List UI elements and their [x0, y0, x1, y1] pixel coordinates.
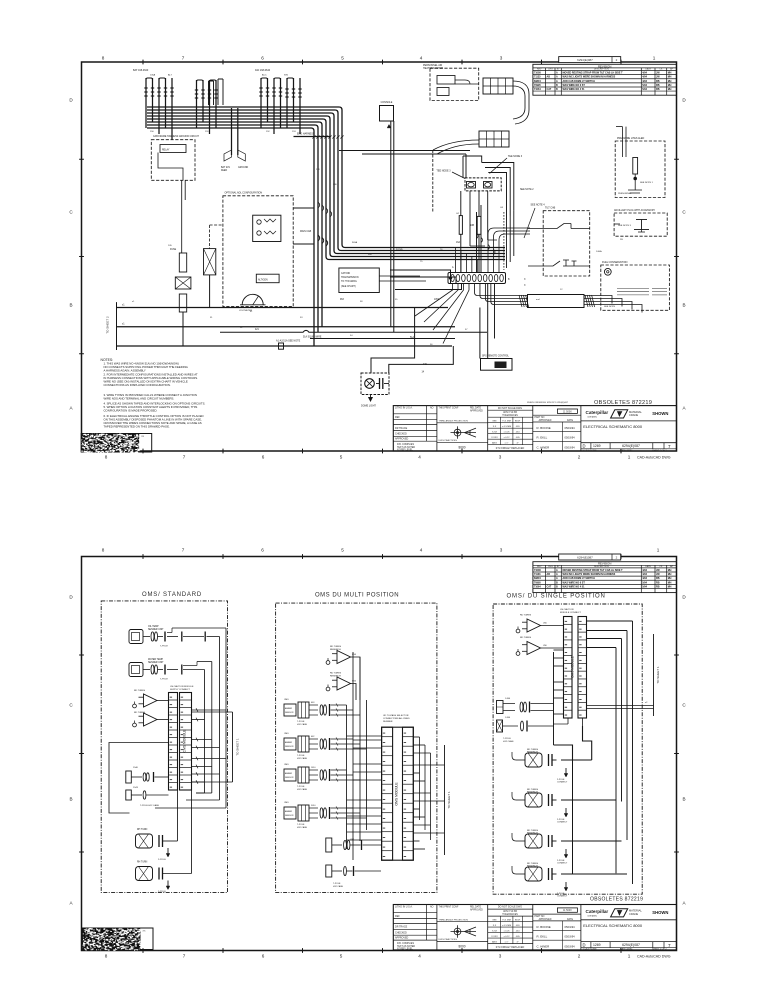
svg-text:US CAUTION MODULE: US CAUTION MODULE	[170, 685, 194, 688]
svg-text:AT REF LEVEL: AT REF LEVEL	[397, 948, 413, 951]
svg-text:RESERCH: RESERCH	[330, 676, 341, 678]
svg-text:CAT: CAT	[547, 585, 552, 588]
svg-text:SENDER UNIT: SENDER UNIT	[148, 662, 164, 664]
svg-text:SHOWN: SHOWN	[652, 910, 668, 915]
svg-text:4/94: 4/94	[642, 569, 647, 572]
svg-text:WAS WIRE NO 4 51: WAS WIRE NO 4 51	[563, 88, 586, 91]
svg-text:WAS WIRE NO 4 51: WAS WIRE NO 4 51	[563, 585, 586, 588]
svg-text:MATERIAL: MATERIAL	[629, 410, 642, 414]
svg-text:OBSOLETES 872219: OBSOLETES 872219	[590, 896, 643, 902]
svg-text:± 0.12: ± 0.12	[503, 936, 510, 938]
svg-text:AB: AB	[547, 573, 551, 576]
svg-text:R. BOONE: R. BOONE	[537, 925, 551, 929]
svg-text:REVISION: REVISION	[598, 562, 611, 566]
svg-text:REV: REV	[537, 69, 542, 71]
svg-text:05/19/94: 05/19/94	[565, 944, 576, 948]
svg-text:D: D	[583, 943, 586, 948]
svg-text:company: company	[588, 915, 598, 917]
svg-text:1543: 1543	[133, 787, 139, 789]
svg-text:51A: 51A	[410, 336, 415, 339]
svg-text:LITHO IN U.S.A.: LITHO IN U.S.A.	[395, 906, 413, 909]
svg-text:SHEET 1 OF 2: SHEET 1 OF 2	[652, 949, 667, 951]
svg-text:B: B	[69, 303, 72, 308]
svg-text:6: 6	[261, 56, 264, 61]
svg-text:CONNECT: CONNECT	[557, 896, 568, 898]
svg-text:7: 7	[183, 455, 186, 460]
svg-text:B: B	[556, 581, 558, 584]
svg-text:B: B	[69, 797, 72, 802]
svg-text:8: 8	[102, 56, 105, 61]
svg-text:RD TURES: RD TURES	[330, 673, 342, 675]
svg-text:TO SHEET 1: TO SHEET 1	[447, 791, 451, 809]
svg-text:REF: REF	[395, 915, 400, 918]
svg-text:X.X: X.X	[493, 925, 497, 927]
svg-text:SENSOR: SENSOR	[285, 777, 294, 779]
svg-text:MH: MH	[668, 88, 672, 91]
svg-text:X.XX: X.XX	[492, 432, 498, 434]
svg-text:± 1°: ± 1°	[505, 942, 509, 944]
svg-text:7-POLE: 7-POLE	[160, 679, 168, 681]
svg-text:5: 5	[341, 548, 344, 553]
svg-text:.5°: .5°	[516, 942, 519, 944]
svg-text:R N KIRKLEY REPLACED: R N KIRKLEY REPLACED	[496, 447, 525, 450]
svg-text:DR TRACE: DR TRACE	[395, 427, 408, 430]
svg-text:WAS INC LIGHTS WERE SHOWN IN H: WAS INC LIGHTS WERE SHOWN IN HARNESS	[563, 76, 616, 79]
svg-text:DR TRACE: DR TRACE	[395, 926, 408, 929]
svg-text:APPROVED: APPROVED	[395, 937, 409, 940]
svg-text:RB: RB	[656, 581, 660, 584]
svg-text:ANG: ANG	[492, 941, 497, 944]
svg-text:DESCRIPTION: DESCRIPTION	[594, 566, 609, 568]
svg-text:APPROVED: APPROVED	[539, 419, 552, 422]
svg-text:MH: MH	[668, 585, 672, 588]
svg-text:2-POLE: 2-POLE	[158, 891, 166, 893]
svg-text:CHECKED: CHECKED	[395, 433, 407, 436]
svg-text:7: 7	[182, 56, 185, 61]
svg-text:BAT 24V: BAT 24V	[221, 166, 230, 169]
svg-text:CONFIGURATION IS MADE PROPOSED: CONFIGURATION IS MADE PROPOSED.	[104, 409, 158, 413]
svg-text:ANCILLARY PLUG WITH ACCESSORY: ANCILLARY PLUG WITH ACCESSORY	[614, 209, 655, 212]
svg-text:INCH: INCH	[515, 421, 521, 423]
svg-text:CK: CK	[659, 69, 663, 71]
svg-text:THIS PRINT CONF: THIS PRINT CONF	[439, 408, 459, 410]
svg-text:SCALE NONE: SCALE NONE	[583, 449, 598, 452]
svg-text:APPROVED: APPROVED	[470, 908, 483, 911]
svg-text:Caterpillar: Caterpillar	[586, 410, 609, 415]
svg-text:AMBER: AMBER	[285, 810, 293, 813]
svg-text:SEE NOTE 4: SEE NOTE 4	[531, 204, 546, 207]
svg-text:R. EKLL: R. EKLL	[537, 436, 548, 440]
svg-text:4: 4	[418, 455, 421, 460]
svg-text:CHG: CHG	[548, 566, 553, 568]
svg-text:ADD CAB DOME LT SWITCH: ADD CAB DOME LT SWITCH	[563, 80, 596, 83]
svg-text:5/94: 5/94	[642, 585, 647, 588]
svg-text:7-POLE: 7-POLE	[297, 755, 305, 757]
svg-text:CAD-AutoCAD DWG: CAD-AutoCAD DWG	[637, 456, 671, 460]
svg-text:R N KIRKLEY REPLACED: R N KIRKLEY REPLACED	[496, 946, 525, 949]
svg-text:6: 6	[262, 954, 265, 959]
svg-text:PERSONNEL: PERSONNEL	[618, 193, 632, 195]
svg-text:10B: 10B	[470, 225, 475, 227]
svg-text:1: 1	[657, 548, 660, 553]
svg-text:3: 3	[500, 548, 503, 553]
svg-text:8000: 8000	[458, 945, 465, 949]
svg-text:CONSOLE: CONSOLE	[381, 101, 393, 104]
svg-text:CRANE: CRANE	[629, 413, 638, 417]
svg-text:C. HINER: C. HINER	[537, 445, 550, 449]
svg-text:C. HINER: C. HINER	[537, 944, 550, 948]
svg-text:RESERCH: RESERCH	[527, 866, 538, 868]
svg-text:RB: RB	[656, 88, 660, 91]
svg-text:TO HYD ARRG: TO HYD ARRG	[341, 280, 357, 283]
svg-text:TO SHEET 2: TO SHEET 2	[106, 316, 110, 334]
svg-text:OMS: OMS	[284, 764, 289, 766]
svg-text:H12 CASE: H12 CASE	[297, 723, 308, 726]
svg-text:CMS MODULE: CMS MODULE	[183, 729, 187, 753]
svg-text:MATERIAL: MATERIAL	[629, 909, 642, 913]
svg-text:D: D	[583, 444, 586, 449]
svg-text:RD TURES: RD TURES	[134, 690, 146, 692]
svg-text:A: A	[556, 569, 558, 572]
svg-text:RD TURES: RD TURES	[330, 646, 342, 648]
svg-text:FUEL CONSERVATION: FUEL CONSERVATION	[602, 261, 628, 264]
svg-text:ADD CAB DOME LT SWITCH: ADD CAB DOME LT SWITCH	[563, 577, 596, 580]
svg-text:4/94: 4/94	[642, 577, 647, 580]
svg-text:RESERCH: RESERCH	[527, 752, 538, 754]
svg-text:muf: muf	[536, 299, 540, 301]
svg-text:PART NO: PART NO	[535, 915, 545, 918]
svg-text:CAB FRAME HARNESS GROUND CIRCU: CAB FRAME HARNESS GROUND CIRCUIT	[153, 135, 200, 138]
svg-text:MH: MH	[668, 84, 672, 87]
svg-text:OMS: OMS	[284, 802, 289, 804]
svg-text:OMS/ STANDARD: OMS/ STANDARD	[142, 592, 202, 598]
svg-text:5/94: 5/94	[642, 581, 647, 584]
svg-text:2-POLE: 2-POLE	[158, 859, 166, 861]
svg-text:DWG PRACTICES: DWG PRACTICES	[439, 439, 458, 442]
svg-text:ANSI Y14.5M: ANSI Y14.5M	[503, 411, 517, 414]
svg-text:CAD-AutoCAD DWG: CAD-AutoCAD DWG	[637, 955, 671, 959]
svg-text:DATE 4/8/94: DATE 4/8/94	[620, 948, 633, 951]
svg-text:REV: REV	[537, 566, 542, 568]
svg-text:A: A	[556, 573, 558, 576]
svg-text:REL DATE: REL DATE	[470, 905, 481, 908]
svg-text:SEE NOTE 2: SEE NOTE 2	[520, 189, 534, 191]
svg-text:6294(E)087: 6294(E)087	[577, 555, 593, 559]
svg-text:CAT: CAT	[547, 88, 552, 91]
svg-text:ALT: ALT	[168, 74, 173, 77]
svg-text:AMBER: AMBER	[285, 772, 293, 775]
svg-text:51A SQUIB WIRE: 51A SQUIB WIRE	[303, 335, 322, 338]
svg-text:TILT CAB: TILT CAB	[545, 207, 556, 210]
svg-text:1540: 1540	[133, 767, 139, 769]
svg-text:CONNECTIONS AS DISPLAYED CONFI: CONNECTIONS AS DISPLAYED CONFIGURATION.	[104, 383, 171, 387]
svg-text:105A: 105A	[150, 74, 156, 77]
svg-text:71008: 71008	[534, 569, 541, 572]
svg-text:.5°: .5°	[516, 443, 519, 445]
svg-text:INCH: INCH	[515, 920, 521, 922]
svg-text:SENSOR: SENSOR	[285, 712, 294, 714]
svg-text:SPS REMOTE CONTROL: SPS REMOTE CONTROL	[482, 355, 510, 357]
svg-text:1: 1	[628, 954, 631, 959]
svg-text:6: 6	[261, 548, 264, 553]
svg-text:05/19/94: 05/19/94	[565, 436, 576, 440]
svg-text:FEED: FEED	[221, 170, 227, 172]
svg-text:7: 7	[668, 444, 671, 449]
svg-text:A1-A3 51A SEE NOTE: A1-A3 51A SEE NOTE	[276, 340, 301, 343]
svg-text:71133: 71133	[534, 573, 541, 576]
svg-text:TO SHEET 1: TO SHEET 1	[656, 666, 660, 684]
svg-text:7-POLE H12 CASE: 7-POLE H12 CASE	[140, 804, 160, 807]
svg-text:TOLERANCES: TOLERANCES	[502, 414, 518, 417]
svg-text:CHG: CHG	[548, 69, 553, 71]
svg-text:5: 5	[341, 56, 344, 61]
svg-text:70995: 70995	[534, 581, 541, 584]
svg-text:REL DATE: REL DATE	[470, 407, 481, 410]
svg-text:3: 3	[499, 455, 502, 460]
svg-text:TEXT AS NOTED: TEXT AS NOTED	[397, 945, 415, 948]
svg-text:105A: 105A	[434, 298, 440, 301]
svg-text:R. EKLL: R. EKLL	[537, 935, 548, 939]
svg-text:ENG HARNESS: ENG HARNESS	[297, 133, 315, 136]
svg-text:CK: CK	[659, 566, 663, 568]
svg-text:company: company	[588, 416, 598, 418]
svg-text:7: 7	[668, 943, 671, 948]
svg-text:RB: RB	[656, 577, 660, 580]
svg-text:± 0.25: ± 0.25	[503, 931, 510, 933]
svg-text:SCALE NONE: SCALE NONE	[583, 948, 598, 951]
svg-text:1: 1	[653, 56, 656, 61]
svg-text:4/94: 4/94	[642, 76, 647, 79]
svg-text:OMS: OMS	[284, 733, 289, 735]
svg-text:WAS INC LIGHTS WERE SHOWN IN H: WAS INC LIGHTS WERE SHOWN IN HARNESS	[563, 573, 616, 576]
svg-text:MOVED RESTING STRAP FROM TILT: MOVED RESTING STRAP FROM TILT CAB LH SID…	[563, 72, 624, 75]
svg-text:IGN: IGN	[284, 75, 288, 77]
svg-text:NO: NO	[430, 907, 434, 909]
svg-text:MAIN CAB: MAIN CAB	[300, 230, 312, 233]
svg-text:Caterpillar: Caterpillar	[586, 909, 609, 914]
svg-text:DO NOT SCALE DWG: DO NOT SCALE DWG	[498, 407, 522, 410]
svg-text:RD TURES: RD TURES	[520, 615, 532, 617]
svg-text:05/19/94: 05/19/94	[565, 935, 576, 939]
svg-text:6294(E)087: 6294(E)087	[577, 58, 593, 62]
svg-text:2: 2	[578, 954, 581, 959]
svg-text:B: B	[682, 303, 685, 308]
svg-text:11 500X: 11 500X	[563, 909, 572, 912]
svg-text:8: 8	[105, 954, 108, 959]
svg-text:± 0.12: ± 0.12	[503, 437, 510, 439]
svg-text:WAS WIRE NO 6 ST: WAS WIRE NO 6 ST	[563, 581, 586, 584]
svg-text:7-POLE: 7-POLE	[160, 646, 168, 648]
svg-text:A: A	[556, 80, 558, 83]
svg-text:± 0.5 MM: ± 0.5 MM	[502, 426, 511, 428]
svg-text:RELAY: RELAY	[162, 149, 170, 152]
svg-text:CONNECT: CONNECT	[557, 782, 568, 784]
svg-text:4: 4	[420, 56, 423, 61]
svg-text:MM: MM	[493, 920, 497, 922]
svg-text:RD TURES: RD TURES	[520, 637, 532, 639]
svg-text:AMBER: AMBER	[285, 707, 293, 710]
svg-text:4: 4	[418, 954, 421, 959]
svg-text:5/94: 5/94	[642, 84, 647, 87]
svg-text:8: 8	[102, 548, 105, 553]
svg-text:70995: 70995	[534, 84, 541, 87]
svg-text:APPROVED: APPROVED	[395, 438, 409, 441]
svg-text:MOVED RESTING STRAP FROM TILT: MOVED RESTING STRAP FROM TILT CAB LH SID…	[563, 569, 624, 572]
svg-text:RB: RB	[656, 84, 660, 87]
svg-text:ALT/GEN: ALT/GEN	[258, 279, 268, 282]
svg-text:OBSOLETES 872219: OBSOLETES 872219	[594, 400, 652, 406]
svg-text:± 0.25: ± 0.25	[503, 432, 510, 434]
svg-text:4: 4	[420, 548, 423, 553]
svg-text:DATE: DATE	[567, 419, 573, 422]
svg-text:TEE NODE 3: TEE NODE 3	[436, 169, 451, 172]
svg-text:FUSE: FUSE	[170, 249, 177, 251]
svg-text:RESERCH: RESERCH	[527, 792, 538, 794]
svg-text:ANSI Y14.5M: ANSI Y14.5M	[503, 910, 517, 913]
svg-text:7-POLE: 7-POLE	[297, 721, 305, 723]
svg-text:11 500X: 11 500X	[563, 410, 572, 413]
svg-text:1269: 1269	[593, 444, 601, 448]
svg-text:TO SHEET 1: TO SHEET 1	[236, 738, 240, 756]
svg-text:7-POLE: 7-POLE	[297, 786, 305, 788]
svg-text:4/94: 4/94	[642, 573, 647, 576]
svg-text:LITHO IN U.S.A.: LITHO IN U.S.A.	[395, 407, 413, 410]
svg-text:MH: MH	[668, 72, 672, 75]
svg-text:REVISION: REVISION	[598, 64, 611, 68]
svg-text:71008: 71008	[534, 72, 541, 75]
svg-text:AMBER: AMBER	[285, 741, 293, 744]
svg-text:MH: MH	[668, 581, 672, 584]
svg-text:TAPED REPRESENTED ON THIS DRAW: TAPED REPRESENTED ON THIS DRAWED PAGE.	[104, 425, 170, 429]
svg-text:7-POLE: 7-POLE	[333, 883, 341, 885]
svg-text:TOLERANCES: TOLERANCES	[502, 913, 518, 916]
svg-text:X.XX: X.XX	[492, 931, 498, 933]
svg-text:B: B	[556, 88, 558, 91]
svg-text:DOME LIGHT: DOME LIGHT	[361, 405, 376, 408]
svg-text:8: 8	[105, 455, 108, 460]
svg-text:963A: 963A	[352, 241, 358, 244]
svg-text:MH: MH	[668, 577, 672, 580]
svg-text:ANG: ANG	[492, 442, 497, 445]
svg-text:PRESSURE LITES ALED: PRESSURE LITES ALED	[617, 137, 645, 140]
svg-text:5: 5	[340, 954, 343, 959]
svg-text:THIRD ANGLE PROJECTION: THIRD ANGLE PROJECTION	[439, 419, 469, 422]
svg-text:OMS MODULE: OMS MODULE	[570, 656, 574, 678]
svg-text:A: A	[556, 577, 558, 580]
svg-text:OMS: OMS	[284, 699, 289, 701]
svg-text:MH: MH	[668, 569, 672, 572]
svg-text:OMS/ DU SINGLE POSITION: OMS/ DU SINGLE POSITION	[507, 594, 606, 600]
svg-text:SUPPLY CONNECT: SUPPLY CONNECT	[170, 689, 191, 691]
svg-text:GROUND: GROUND	[238, 167, 249, 169]
svg-text:UD TO-PASS SELECTOR: UD TO-PASS SELECTOR	[383, 714, 409, 717]
svg-text:DATE: DATE	[567, 918, 573, 921]
svg-text:R. BOONE: R. BOONE	[537, 426, 551, 430]
svg-text:7: 7	[182, 548, 185, 553]
svg-text:ACC: ACC	[262, 74, 267, 77]
svg-text:RH TURN: RH TURN	[137, 829, 148, 831]
svg-text:71064: 71064	[534, 88, 541, 91]
svg-text:R.B. COMPLIES: R.B. COMPLIES	[397, 444, 414, 446]
svg-text:RB: RB	[656, 585, 660, 588]
svg-text:NUMBER: NUMBER	[383, 721, 393, 723]
svg-text:APPROVED: APPROVED	[470, 409, 483, 412]
svg-text:WHEN ORDERING SPECIFY 6294(E)0: WHEN ORDERING SPECIFY 6294(E)087	[527, 402, 569, 404]
svg-text:ELECTRICAL SCHEMATIC 8000: ELECTRICAL SCHEMATIC 8000	[583, 923, 643, 928]
svg-text:H12 CASE: H12 CASE	[333, 885, 344, 888]
svg-text:TEE NODE 3: TEE NODE 3	[508, 155, 523, 158]
svg-text:RESERCH: RESERCH	[527, 833, 538, 835]
svg-text:6: 6	[262, 455, 265, 460]
svg-text:RH TURN: RH TURN	[137, 862, 148, 864]
svg-text:SHEET 1 OF 2: SHEET 1 OF 2	[652, 450, 667, 452]
svg-text:R.B. COMPLIES: R.B. COMPLIES	[397, 943, 414, 945]
svg-text:DO NOT SCALE DWG: DO NOT SCALE DWG	[498, 906, 522, 909]
svg-text:X.XXX: X.XXX	[491, 437, 498, 439]
svg-text:CAT/IND: CAT/IND	[341, 272, 350, 275]
svg-text:US CAUTION: US CAUTION	[560, 608, 574, 611]
svg-text:3: 3	[500, 56, 503, 61]
svg-text:H12 CASE: H12 CASE	[297, 788, 308, 791]
svg-text:SENDER UNIT: SENDER UNIT	[148, 629, 164, 631]
svg-text:1-806: 1-806	[505, 717, 511, 719]
svg-text:71133: 71133	[534, 76, 541, 79]
svg-text:OMS DU MULTI POSITION: OMS DU MULTI POSITION	[315, 593, 399, 599]
svg-text:BAT 168-0640: BAT 168-0640	[133, 69, 149, 72]
svg-text:05/19/94: 05/19/94	[565, 426, 576, 430]
svg-text:TOL MM: TOL MM	[502, 421, 511, 423]
svg-text:MH: MH	[668, 80, 672, 83]
svg-text:TEXT AS NOTED: TEXT AS NOTED	[397, 446, 415, 449]
svg-text:(SEE CHART): (SEE CHART)	[341, 285, 356, 288]
svg-text:THIRD ANGLE PROJECTION: THIRD ANGLE PROJECTION	[439, 918, 469, 921]
svg-text:DESCRIPTION: DESCRIPTION	[594, 69, 609, 71]
svg-text:IGN 168-0640: IGN 168-0640	[255, 69, 271, 72]
svg-text:4/94: 4/94	[642, 72, 647, 75]
svg-text:SEE NOTE 3: SEE NOTE 3	[618, 225, 632, 227]
svg-text:8000: 8000	[458, 446, 465, 450]
svg-text:RD TURES: RD TURES	[134, 712, 146, 714]
svg-text:05/19/94: 05/19/94	[565, 445, 576, 449]
svg-text:B: B	[556, 84, 558, 87]
svg-text:05/19/94: 05/19/94	[565, 925, 576, 929]
svg-text:AT REF LEVEL: AT REF LEVEL	[397, 449, 413, 452]
svg-text:OIL TEMP: OIL TEMP	[148, 626, 159, 628]
svg-text:3: 3	[499, 954, 502, 959]
svg-text:69804: 69804	[534, 80, 541, 83]
svg-text:ELECTRICAL SCHEMATIC 8000: ELECTRICAL SCHEMATIC 8000	[583, 424, 643, 429]
svg-text:SEE NOTE: SEE NOTE	[604, 306, 616, 308]
svg-text:MM: MM	[493, 421, 497, 423]
svg-text:1: 1	[628, 455, 631, 460]
svg-text:B: B	[556, 585, 558, 588]
svg-text:CONNECT: CONNECT	[557, 863, 568, 865]
svg-text:7-POLE: 7-POLE	[503, 738, 511, 740]
svg-text:5: 5	[340, 455, 343, 460]
svg-text:MH: MH	[668, 573, 672, 576]
svg-text:REF: REF	[395, 416, 400, 419]
svg-text:H12 CASE: H12 CASE	[297, 757, 308, 760]
svg-text:X.XXX: X.XXX	[491, 936, 498, 938]
svg-text:CONNECTORS ALLOWED: CONNECTORS ALLOWED	[383, 717, 410, 720]
svg-text:OPTIONAL ADL CONFIGURATION: OPTIONAL ADL CONFIGURATION	[225, 192, 263, 195]
svg-text:4/94: 4/94	[642, 80, 647, 83]
svg-text:PART NO: PART NO	[535, 416, 545, 419]
svg-text:NO: NO	[430, 408, 434, 410]
svg-text:16A: 16A	[456, 241, 461, 244]
svg-text:HEATER SYSTEM: HEATER SYSTEM	[423, 67, 443, 70]
svg-text:WIRE NOS AND TERMINAL AND CIRC: WIRE NOS AND TERMINAL AND CIRCUIT NUMBER…	[104, 397, 175, 401]
